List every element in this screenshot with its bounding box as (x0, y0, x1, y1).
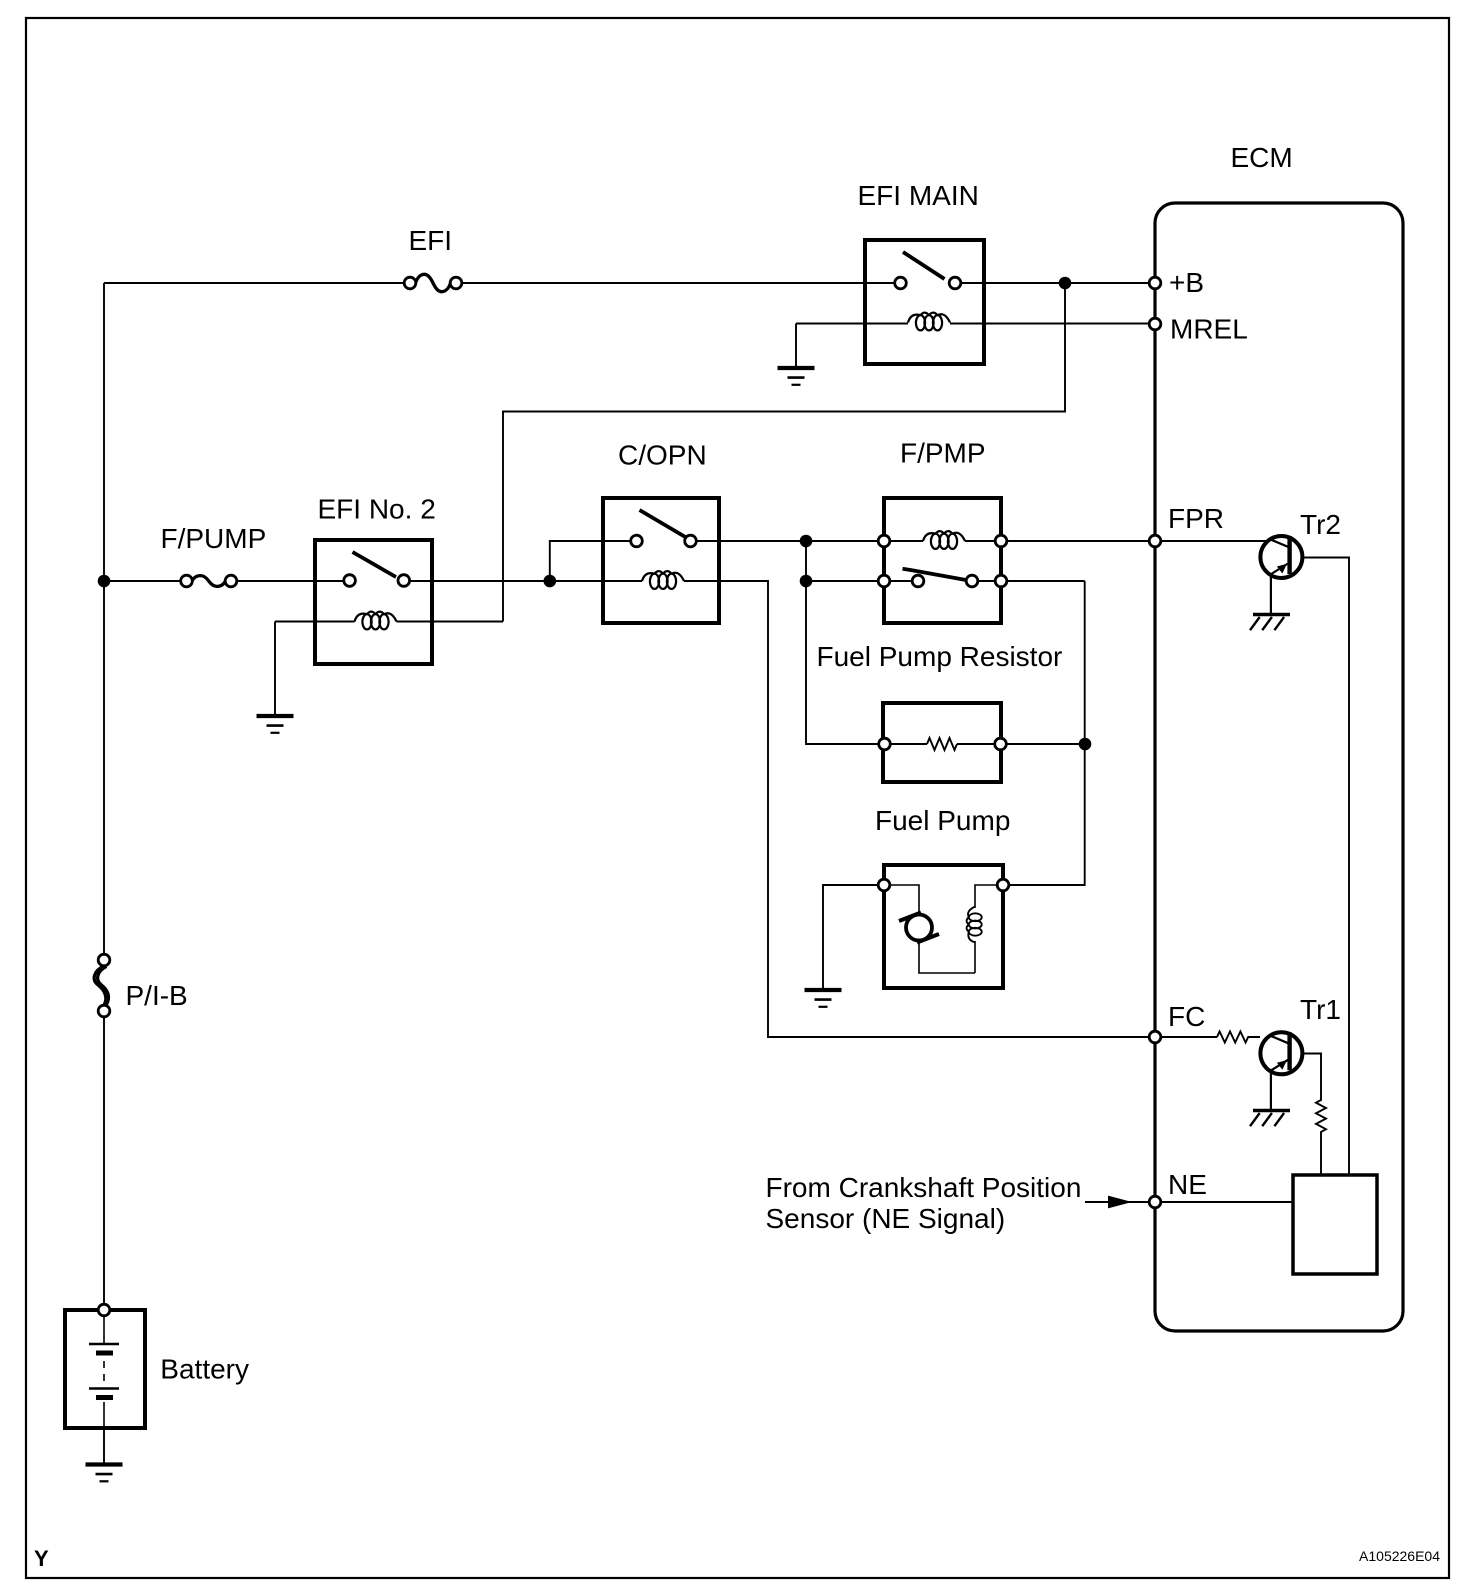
terminal circles fuel pump (878, 879, 890, 891)
ECM terminal MREL (1149, 318, 1161, 330)
NE signal box (1293, 1175, 1377, 1274)
wire C/OPN switch riser (550, 541, 637, 581)
wire left bus vertical (103, 283, 105, 1310)
resistor zigzag (927, 738, 957, 750)
wire Tr2 emitter stem (1270, 575, 1272, 615)
relay F/PMP box (884, 498, 1001, 623)
svg-text:C/OPN: C/OPN (618, 440, 707, 471)
wire resistor leads (885, 743, 1086, 745)
ECM terminal FC (1149, 1031, 1161, 1043)
svg-text:EFI No. 2: EFI No. 2 (318, 494, 436, 525)
wire MREL row and EFI MAIN coil leads (796, 324, 1155, 369)
wire C/OPN coil to FC drop (684, 581, 1217, 1037)
svg-text:FC: FC (1168, 1001, 1205, 1032)
svg-text:Fuel Pump: Fuel Pump (875, 805, 1010, 836)
contact circles F/PMP inner (912, 575, 924, 587)
svg-text:NE: NE (1168, 1169, 1207, 1200)
svg-text:F/PUMP: F/PUMP (161, 523, 267, 554)
switch blade EFI No.2 (353, 552, 397, 577)
wire Tr1 base with zigzag (1303, 1054, 1326, 1176)
svg-text:F/PMP: F/PMP (900, 438, 986, 469)
svg-text:MREL: MREL (1170, 314, 1248, 345)
switch blade C/OPN (640, 510, 688, 538)
terminal circles F/PMP box edges (878, 535, 890, 547)
junction dot C/OPN feed (544, 575, 557, 588)
relay EFI No. 2 box (315, 540, 432, 664)
ECM terminal NE (1149, 1196, 1161, 1208)
coil in fuel pump (967, 907, 982, 943)
junction dot row B x806 (800, 535, 813, 548)
junction dot row C x806 (800, 575, 813, 588)
transistor Tr2 (1260, 536, 1302, 578)
fuse F/PUMP (192, 576, 225, 587)
wire Tr2 base to NE box (1303, 558, 1349, 1176)
wire battery to ground (103, 1428, 105, 1465)
wire F/PUMP row left (104, 580, 350, 582)
svg-text:Battery: Battery (160, 1354, 249, 1385)
fusible link terminals P/I-B (98, 954, 110, 966)
ground EFI No.2 (257, 716, 294, 733)
relay C/OPN box (603, 498, 719, 623)
coil F/PMP relay (923, 531, 965, 549)
switch blade EFI MAIN (903, 252, 945, 279)
wire EFI No.2 switch to C/OPN coil (404, 580, 642, 582)
svg-text:Fuel Pump Resistor: Fuel Pump Resistor (817, 641, 1063, 672)
ECM terminal FPR (1149, 535, 1161, 547)
fuel pump resistor box (883, 703, 1001, 782)
svg-text:A105226E04: A105226E04 (1359, 1548, 1440, 1564)
svg-text:Tr1: Tr1 (1300, 994, 1341, 1025)
terminal circles resistor (879, 738, 891, 750)
wire Tr1 emitter stem (1270, 1071, 1272, 1110)
ground fuel pump (805, 990, 842, 1007)
contact circles EFI No.2 (344, 575, 356, 587)
svg-text:Y: Y (34, 1546, 49, 1571)
battery internal plates (89, 1317, 119, 1428)
coil EFI MAIN relay (908, 313, 950, 331)
coil EFI No.2 relay (355, 612, 397, 630)
ground battery (86, 1465, 123, 1482)
wire pump internal left (884, 885, 1003, 973)
switch blade F/PMP (903, 569, 967, 580)
contact circles EFI MAIN (895, 277, 907, 289)
ECM box (1155, 203, 1403, 1331)
fuel pump box (884, 865, 1003, 988)
wire fuse to EFI MAIN (456, 282, 901, 284)
junction dot +B branch (1059, 277, 1072, 290)
fusible link P/I-B (94, 966, 108, 1005)
wire pump left lead and ground drop (823, 885, 884, 990)
svg-text:EFI: EFI (409, 225, 453, 256)
wire resistor feed vertical x806 (806, 541, 885, 744)
battery positive terminal (98, 1304, 110, 1316)
wire NE row (1085, 1201, 1293, 1203)
wire EFI MAIN to +B (955, 282, 1155, 284)
svg-text:Tr2: Tr2 (1300, 509, 1341, 540)
svg-text:FPR: FPR (1168, 503, 1224, 534)
junction dot bus/F-PUMP (98, 575, 111, 588)
ground EFI MAIN (778, 368, 815, 385)
fuse EFI (416, 274, 451, 291)
coil C/OPN relay (642, 571, 684, 589)
motor M in fuel pump (899, 913, 939, 943)
transistor Tr1 (1260, 1032, 1302, 1074)
svg-text:P/I-B: P/I-B (126, 980, 188, 1011)
fuse terminal circles EFI (404, 277, 416, 289)
wire main +B line left (104, 282, 410, 284)
battery box (65, 1310, 145, 1428)
wire C/OPN switch to F/PMP coil to FPR (691, 540, 1269, 542)
contact circles C/OPN (631, 535, 643, 547)
svg-text:Sensor (NE Signal): Sensor (NE Signal) (766, 1203, 1006, 1234)
wire EFI No.2 coil leads and ground drop (275, 622, 503, 717)
chassis ground Tr2 (1250, 615, 1290, 631)
wire FC zigzag resistor (1217, 1032, 1260, 1043)
junction dot resistor/pump (1079, 738, 1092, 751)
svg-text:EFI MAIN: EFI MAIN (858, 180, 979, 211)
svg-text:ECM: ECM (1231, 142, 1293, 173)
svg-text:From Crankshaft Position: From Crankshaft Position (766, 1172, 1082, 1203)
fuse terminal circles F/PUMP (181, 575, 193, 587)
arrow NE signal (1108, 1196, 1132, 1209)
wire F/PMP switch row to pump (806, 581, 1085, 885)
svg-text:+B: +B (1169, 267, 1204, 298)
ECM terminal +B (1149, 277, 1161, 289)
relay EFI MAIN box (865, 240, 984, 364)
wire MREL drive down-left-down (503, 283, 1065, 622)
chassis ground Tr1 (1250, 1111, 1290, 1127)
